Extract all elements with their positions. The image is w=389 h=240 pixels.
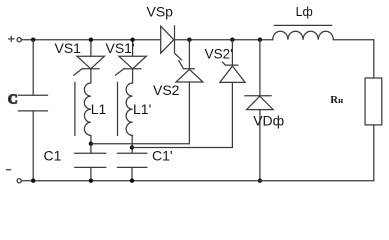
node junction top of C column [31, 38, 35, 42]
node L1'-C1'-VS2' junction [130, 145, 134, 149]
wire top rail right of Lf [333, 39, 374, 41]
node junction top of VS2 [187, 38, 191, 42]
terminal minus (negative input) [7, 170, 22, 183]
node junction top of VS2' [230, 38, 234, 42]
svg-text:C: C [8, 92, 18, 107]
node junction VDf bottom rail [258, 179, 262, 183]
node junction bottom of C1 [89, 179, 93, 183]
svg-text:VS1': VS1' [106, 40, 135, 56]
wire VS2' link to L1'-C1' node [132, 147, 232, 149]
wire L1' to C1' [131, 135, 133, 153]
svg-text:VSp: VSp [147, 3, 174, 19]
node junction top of VDf [258, 38, 262, 42]
svg-text:VS2: VS2 [153, 82, 180, 98]
svg-text:L1': L1' [133, 101, 151, 117]
svg-text:VS1: VS1 [55, 40, 82, 56]
inductor L1 [75, 82, 91, 135]
inductor L1' [118, 82, 133, 135]
wire top rail right of VSp [175, 39, 273, 41]
thyristor VS1 [74, 40, 105, 83]
capacitor C1' [117, 153, 147, 167]
wire right column upper [373, 40, 375, 78]
inductor Lf [273, 25, 334, 39]
svg-text:C1: C1 [44, 147, 62, 163]
wire right column lower [373, 125, 375, 181]
svg-text:VDф: VDф [253, 113, 284, 129]
capacitor C [18, 95, 47, 111]
svg-text:C1': C1' [152, 147, 173, 163]
wire C column lower [32, 111, 34, 181]
node junction top of VS1 [89, 38, 93, 42]
thyristor VS2 [176, 40, 203, 144]
node junction bottom of C1' [130, 179, 134, 183]
resistor Rn [365, 78, 382, 125]
node junction top of VS1' [130, 38, 134, 42]
wire VS2 link to L1-C1 node [91, 143, 189, 145]
thyristor VS1' [115, 40, 146, 83]
diode VDf [245, 40, 273, 181]
wire top rail left segment [21, 39, 160, 41]
thyristor VS2' [220, 40, 245, 148]
svg-text:Lф: Lф [296, 5, 313, 19]
node junction bottom of C column [31, 179, 35, 183]
wire C1 to bottom rail [90, 167, 92, 180]
svg-text:L1: L1 [91, 101, 107, 117]
wire C1' to bottom rail [131, 167, 133, 180]
wire C column upper [32, 40, 34, 95]
svg-text:VS2': VS2' [205, 46, 233, 61]
node L1-C1-VS2 junction [89, 142, 93, 146]
wire bottom rail [21, 180, 373, 182]
terminal plus (positive input) [9, 36, 22, 42]
thyristor VSp [161, 26, 182, 60]
svg-text:Rн: Rн [330, 94, 343, 106]
capacitor C1 [75, 153, 106, 167]
wire L1 to C1 [90, 135, 92, 153]
